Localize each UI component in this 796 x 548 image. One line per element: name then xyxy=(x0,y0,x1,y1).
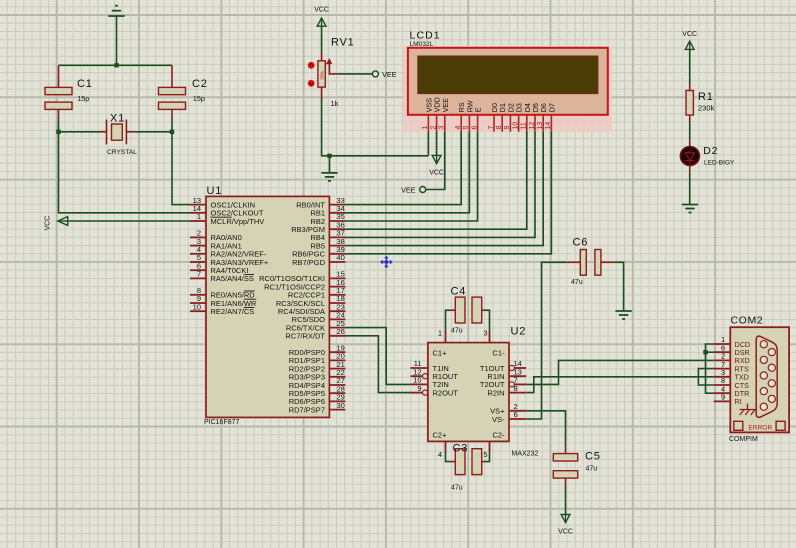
svg-text:VEE: VEE xyxy=(382,70,397,79)
wire MAX232 pin5 to C3 xyxy=(485,453,490,462)
wire C1-bottom down to OSC2 row xyxy=(59,118,191,213)
svg-text:2: 2 xyxy=(430,126,437,130)
svg-text:5: 5 xyxy=(483,450,487,459)
wire RB6-D7 xyxy=(345,132,551,254)
power VCC (R1 top) xyxy=(682,31,697,84)
svg-text:11: 11 xyxy=(521,122,528,129)
svg-text:CRYSTAL: CRYSTAL xyxy=(107,149,137,156)
wire T2OUT to COM2 RXD xyxy=(526,360,714,384)
wire DCD-DSR-DTR loopback xyxy=(706,344,714,393)
svg-text:ERROR: ERROR xyxy=(748,424,772,431)
svg-text:6: 6 xyxy=(514,410,518,419)
svg-text:RB7/PGD: RB7/PGD xyxy=(292,258,326,267)
svg-text:MAX232: MAX232 xyxy=(512,451,539,458)
svg-text:5: 5 xyxy=(463,126,470,130)
capacitor C4 xyxy=(450,286,485,335)
svg-text:D2: D2 xyxy=(703,145,718,157)
svg-text:R2OUT: R2OUT xyxy=(433,388,459,397)
svg-text:1: 1 xyxy=(438,329,442,338)
svg-text:COM2: COM2 xyxy=(731,315,764,327)
svg-text:13: 13 xyxy=(537,122,544,130)
wire R2IN to COM2 TXD xyxy=(526,377,714,393)
power VCC (LCD VDD, pointing down) xyxy=(429,132,444,177)
svg-text:RV1: RV1 xyxy=(331,37,355,49)
wire RB4-D5 xyxy=(345,132,535,238)
svg-text:C2-: C2- xyxy=(492,431,505,440)
svg-text:47u: 47u xyxy=(451,485,463,492)
wire RV1 wiper to VEE xyxy=(337,73,372,75)
potentiometer RV1 xyxy=(308,53,339,108)
svg-text:47u: 47u xyxy=(571,279,583,286)
svg-text:47u: 47u xyxy=(586,466,598,473)
COM port COM2 (COMPIM) xyxy=(714,315,789,444)
svg-text:PIC16F877: PIC16F877 xyxy=(204,419,240,426)
svg-text:40: 40 xyxy=(337,253,345,262)
svg-text:VCC: VCC xyxy=(558,529,573,536)
ground (top, above crystal wires) xyxy=(108,6,124,66)
svg-text:LM032L: LM032L xyxy=(410,41,434,48)
wire RC7/RX to R2OUT xyxy=(345,336,410,393)
wire C6-left down to VS- xyxy=(526,262,566,419)
svg-text:VEE: VEE xyxy=(401,186,416,195)
svg-text:12: 12 xyxy=(529,122,536,130)
svg-text:9: 9 xyxy=(417,384,421,393)
capacitor C2 xyxy=(159,65,208,118)
crystal X1 xyxy=(99,113,137,157)
svg-text:1: 1 xyxy=(422,126,429,130)
svg-text:RI: RI xyxy=(735,397,742,406)
junction dot ground stem xyxy=(114,63,118,67)
wire MAX232 pin1 to C4 xyxy=(446,310,451,331)
wire RV1 bottom to LCD VSS xyxy=(322,99,429,156)
svg-text:VCC: VCC xyxy=(429,170,444,177)
capacitor C6 xyxy=(566,237,615,287)
svg-text:3: 3 xyxy=(439,126,446,130)
svg-text:26: 26 xyxy=(337,327,345,336)
wire MAX232 pin4 to C3 xyxy=(446,453,451,462)
svg-text:RE2/AN7/CS: RE2/AN7/CS xyxy=(211,307,255,316)
wire VS+ to C5 xyxy=(526,411,565,446)
svg-text:50%: 50% xyxy=(319,71,324,80)
svg-text:C1-: C1- xyxy=(492,349,505,358)
svg-text:4: 4 xyxy=(455,126,462,130)
wire RB3-D4 xyxy=(345,132,526,229)
wire D2 to ground xyxy=(689,173,691,205)
svg-text:R1: R1 xyxy=(698,91,714,103)
svg-text:8: 8 xyxy=(496,126,503,130)
svg-text:RC7/RX/DT: RC7/RX/DT xyxy=(285,332,325,341)
svg-text:4: 4 xyxy=(438,450,442,459)
wire RTS-CTS loopback xyxy=(698,369,713,385)
wire X1 left xyxy=(59,131,100,133)
wire C6-right to ground xyxy=(615,262,624,311)
wire LCD VSS down xyxy=(427,132,429,156)
LED D2 (LED-BIGY) xyxy=(681,140,736,173)
svg-text:6: 6 xyxy=(471,126,478,130)
svg-text:9: 9 xyxy=(721,393,725,402)
wire RB1-RW xyxy=(345,132,469,213)
origin marker xyxy=(381,257,392,268)
svg-text:U2: U2 xyxy=(511,326,527,338)
junction node C2-X1 xyxy=(170,130,174,134)
svg-text:E: E xyxy=(474,107,483,112)
svg-text:10: 10 xyxy=(512,122,519,130)
svg-text:RD7/PSP7: RD7/PSP7 xyxy=(289,405,325,414)
label RV1 xyxy=(331,37,355,49)
svg-text:C1+: C1+ xyxy=(433,349,448,358)
svg-text:14: 14 xyxy=(545,122,552,130)
wire RB5-D6 xyxy=(345,132,543,246)
power VCC (below C5, pointing down) xyxy=(558,486,573,536)
svg-text:47u: 47u xyxy=(451,328,463,335)
svg-text:15p: 15p xyxy=(77,94,89,103)
wire RC6/TX to T2IN xyxy=(345,328,410,385)
svg-text:R2IN: R2IN xyxy=(487,388,504,397)
power VCC (MCLR, pointing left) xyxy=(45,216,191,231)
svg-text:C1: C1 xyxy=(77,78,93,90)
LCD display LCD1 (LM032L) xyxy=(403,30,612,132)
ground (below D2) xyxy=(682,205,698,213)
wire RB0-RS xyxy=(345,132,461,205)
ground (C6) xyxy=(615,311,631,319)
capacitor C3 xyxy=(450,443,485,492)
svg-text:VCC: VCC xyxy=(682,31,697,38)
resistor R1 xyxy=(686,84,715,122)
svg-text:VCC: VCC xyxy=(314,7,329,14)
power VCC (RV1 top) xyxy=(314,7,329,54)
wire C2-bottom down to OSC1 row xyxy=(172,118,190,205)
svg-text:C3: C3 xyxy=(453,443,469,455)
IC U2 (MAX232) xyxy=(411,326,539,460)
svg-text:C5: C5 xyxy=(585,451,601,463)
svg-text:C2: C2 xyxy=(192,78,208,90)
svg-text:RA5/AN4/SS: RA5/AN4/SS xyxy=(211,274,254,283)
svg-text:10: 10 xyxy=(193,302,201,311)
svg-text:15p: 15p xyxy=(193,94,205,103)
svg-text:D7: D7 xyxy=(547,103,556,112)
terminal VEE (LCD contrast) xyxy=(401,186,426,195)
junction node C1-X1 xyxy=(56,130,60,134)
svg-text:X1: X1 xyxy=(110,113,125,125)
svg-text:1: 1 xyxy=(197,212,201,221)
svg-text:C6: C6 xyxy=(573,237,589,249)
svg-text:LCD1: LCD1 xyxy=(410,30,441,42)
svg-text:230k: 230k xyxy=(698,104,715,113)
junction dot RV1-ground xyxy=(327,154,331,158)
wire MAX232 pin3 to C4 xyxy=(485,310,490,331)
svg-text:VEE: VEE xyxy=(441,98,450,113)
svg-text:VCC: VCC xyxy=(45,216,52,231)
svg-text:9: 9 xyxy=(504,126,511,130)
svg-text:7: 7 xyxy=(488,126,495,130)
capacitor C1 xyxy=(45,65,93,118)
wire LCD VEE to VEE terminal xyxy=(426,132,445,190)
wire X1 right xyxy=(135,131,172,133)
svg-text:7: 7 xyxy=(197,270,201,279)
junction dot DSR xyxy=(703,350,707,354)
svg-text:MCLR/Vpp/THV: MCLR/Vpp/THV xyxy=(211,217,265,226)
svg-text:8: 8 xyxy=(514,384,518,393)
svg-text:C2+: C2+ xyxy=(433,431,448,440)
svg-text:C4: C4 xyxy=(451,286,467,298)
capacitor C5 xyxy=(553,446,600,486)
svg-text:3: 3 xyxy=(483,329,487,338)
wire C1-top to C2-top xyxy=(59,64,173,66)
svg-text:1k: 1k xyxy=(331,99,339,108)
svg-text:30: 30 xyxy=(337,401,345,410)
ground (below RV1) xyxy=(321,156,337,181)
svg-text:U1: U1 xyxy=(207,185,223,197)
terminal VEE (RV1 wiper) xyxy=(372,70,396,79)
wire RB2-E xyxy=(345,132,477,221)
microcontroller U1 (PIC16F877) xyxy=(190,185,345,426)
svg-text:COMPIM: COMPIM xyxy=(729,436,758,443)
svg-text:VS-: VS- xyxy=(492,415,505,424)
wire R1 to D2 xyxy=(689,122,691,140)
svg-text:LED-BIGY: LED-BIGY xyxy=(704,160,735,167)
